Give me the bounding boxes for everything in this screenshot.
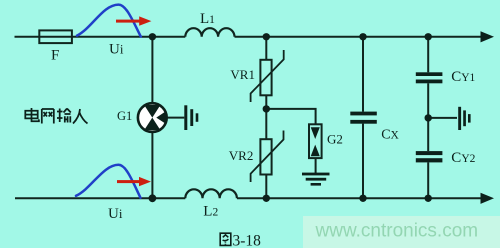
svg-text:L2: L2 bbox=[203, 204, 218, 220]
svg-text:VR1: VR1 bbox=[230, 67, 255, 82]
svg-text:L1: L1 bbox=[200, 11, 215, 27]
svg-text:F: F bbox=[51, 47, 59, 63]
svg-text:CY1: CY1 bbox=[451, 69, 475, 85]
svg-text:3-18: 3-18 bbox=[233, 232, 262, 248]
svg-text:www.cntronics.com: www.cntronics.com bbox=[315, 220, 479, 241]
svg-text:CY2: CY2 bbox=[451, 150, 475, 166]
svg-text:G2: G2 bbox=[327, 131, 343, 146]
svg-text:Ui: Ui bbox=[109, 41, 124, 57]
svg-text:Ui: Ui bbox=[108, 206, 123, 222]
svg-text:G1: G1 bbox=[117, 109, 132, 123]
svg-text:CX: CX bbox=[381, 127, 399, 142]
svg-text:VR2: VR2 bbox=[229, 148, 254, 163]
